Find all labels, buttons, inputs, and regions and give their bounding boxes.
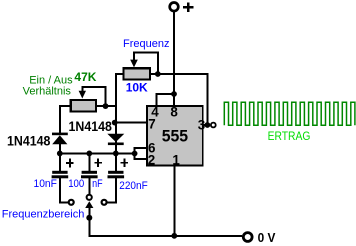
wire dotA to pin8 <box>173 94 175 106</box>
+V supply terminal <box>170 3 179 12</box>
wire C2 bottom to switch contact <box>88 178 90 194</box>
IC U1 555 body <box>147 106 203 165</box>
wire D1 anode to rail <box>59 144 61 155</box>
svg-text:ERTRAG: ERTRAG <box>268 129 311 143</box>
diode D2 1N4148 (cathode down) <box>107 134 124 145</box>
C2 polarity plus <box>94 158 102 167</box>
wire node vertical <box>115 73 117 123</box>
svg-text:3: 3 <box>198 118 205 133</box>
svg-text:1N4148: 1N4148 <box>69 119 113 134</box>
junction dot F (rail / D1 / C1) <box>57 151 63 157</box>
0V supply terminal <box>243 233 252 242</box>
junction dot C (pin3 node) <box>205 122 211 128</box>
junction dot B (R1 wiper/right) <box>155 71 161 77</box>
wire C3 bottom to switch contact <box>107 178 116 202</box>
junction dot I (rail / pins 6-2) <box>132 151 138 157</box>
label + <box>183 3 194 13</box>
capacitor C2 plates <box>81 171 98 179</box>
wire R2 left terminal down to D1 <box>60 106 70 133</box>
svg-text:1N4148: 1N4148 <box>7 134 51 149</box>
potentiometer R2 47K body <box>71 100 96 111</box>
switch S1 contact under C2 <box>87 195 92 200</box>
wire pin3 stub <box>204 124 209 126</box>
switch S1 contact under C3 <box>102 200 107 205</box>
capacitor C1 plates <box>52 171 69 179</box>
wire switch wiper to bottom rail <box>89 208 242 236</box>
R2 wiper arrowhead <box>79 91 86 99</box>
svg-text:1: 1 <box>172 153 180 168</box>
svg-text:8: 8 <box>170 105 178 120</box>
wire C3 top <box>115 153 117 171</box>
capacitor C3 plates <box>108 171 125 179</box>
wire pin1 down <box>173 166 175 237</box>
wire R1 left terminal <box>115 73 123 75</box>
diode D1 1N4148 (cathode up) <box>52 133 68 145</box>
junction dot E (node / pin7 / D2) <box>112 120 118 126</box>
svg-text:220nF: 220nF <box>119 180 148 192</box>
svg-text:Verhältnis: Verhältnis <box>23 85 72 97</box>
potentiometer R1 10K body <box>124 68 151 79</box>
junction dot G (rail / D2 / C3) <box>113 151 119 157</box>
svg-text:47K: 47K <box>74 70 96 84</box>
wire C1 top <box>59 153 61 171</box>
svg-text:Frequenzbereich: Frequenzbereich <box>2 208 85 220</box>
wire dotA to pin4 <box>156 94 174 106</box>
wire C1 bottom to switch contact <box>60 178 68 202</box>
svg-text:10K: 10K <box>126 80 148 94</box>
wire R1 right terminal to pin3 riser <box>151 74 208 125</box>
switch S1 contact under C1 <box>69 200 74 205</box>
wire R1 wiper bracket <box>134 53 158 72</box>
wire D2 vertical <box>115 123 117 154</box>
switch S1 wiper arrowhead <box>85 201 93 208</box>
svg-text:555: 555 <box>162 127 188 146</box>
junction dot A (+V / pins 4-8) <box>171 91 177 97</box>
svg-text:10nF: 10nF <box>34 178 58 190</box>
wire capacitor rail <box>59 152 136 154</box>
junction dot D (R2 wiper/right) <box>103 103 109 109</box>
wire C2 top <box>88 153 90 171</box>
wire node to pin7 <box>116 122 147 124</box>
wire +V vertical <box>173 11 175 95</box>
svg-text:Frequenz: Frequenz <box>123 38 169 50</box>
svg-text:nF: nF <box>92 178 103 190</box>
C3 polarity plus <box>121 158 129 167</box>
wire bracket pins 6 and 2 <box>135 148 147 159</box>
svg-text:2: 2 <box>148 153 155 168</box>
R1 wiper arrowhead <box>130 60 138 68</box>
svg-text:7: 7 <box>148 117 155 132</box>
svg-text:100: 100 <box>68 178 84 190</box>
junction dot H (rail / C2) <box>86 151 92 157</box>
svg-text:0 V: 0 V <box>258 230 276 245</box>
junction dot on switch wiper <box>86 215 92 221</box>
wire R2 wiper bracket <box>82 87 105 104</box>
output square waveform <box>224 102 355 125</box>
output terminal circle at pin3 <box>211 123 216 128</box>
junction dot bottom rail / pin1 <box>171 233 177 239</box>
C1 polarity plus <box>66 159 74 168</box>
wire R2 right terminal to node <box>97 105 117 107</box>
